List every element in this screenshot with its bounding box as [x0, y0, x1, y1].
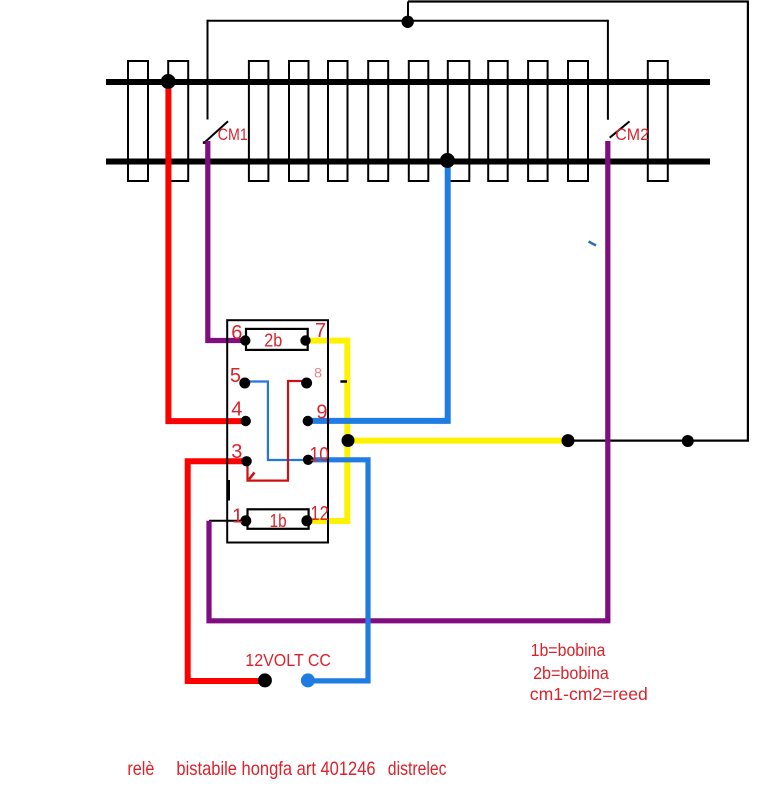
wire blue: pin 10 to supply + terminal: [308, 460, 368, 681]
terminal: supply minus (blue): [301, 673, 315, 687]
pin 7: [300, 335, 310, 345]
node: yellow/black junction: [562, 434, 575, 447]
svg-text:3: 3: [231, 441, 242, 463]
svg-text:CM1: CM1: [218, 125, 248, 144]
wire yellow: node to black loop node: [347, 438, 568, 444]
svg-text:12VOLT CC: 12VOLT CC: [245, 650, 331, 670]
reed switch CM1 blade: [205, 121, 229, 142]
node: top loop junction: [402, 16, 414, 28]
coil 1b box: [248, 509, 309, 529]
svg-text:10: 10: [310, 444, 330, 466]
wire black: CM2 top lead: [607, 20, 609, 120]
svg-text:1: 1: [232, 506, 243, 528]
svg-text:6: 6: [231, 322, 242, 344]
node: yellow junction near relay: [342, 434, 355, 447]
wire black: riser from bus to outer loop: [407, 2, 409, 22]
wire black: outer loop bottom to yellow node: [568, 440, 749, 442]
stray cyan scribble: [589, 242, 597, 246]
pin 8: [301, 378, 312, 389]
arrowhead tick at pin 3: [249, 473, 255, 480]
pin 9: [303, 416, 313, 426]
node: black loop junction: [682, 435, 694, 447]
pin 3: [241, 456, 251, 466]
relay border thick mark: [227, 480, 230, 501]
svg-text:distrelec: distrelec: [388, 758, 447, 780]
pin 1: [240, 515, 251, 526]
wire yellow: pin 7 to node then down to pin 12: [306, 341, 348, 521]
svg-text:1b: 1b: [270, 510, 287, 531]
pin 12: [301, 515, 312, 526]
svg-text:bistabile hongfa art 401246: bistabile hongfa art 401246: [176, 758, 375, 780]
svg-text:8: 8: [314, 365, 322, 380]
pin 10: [303, 455, 313, 465]
relay body outline: [227, 320, 328, 542]
internal wire blue thin: pin 5 to pin 10: [245, 382, 308, 461]
internal wire red thin: pin 8 to pin 3 arrow: [248, 381, 307, 481]
svg-text:relè: relè: [127, 758, 154, 780]
wire black: outer loop right side: [747, 2, 749, 441]
minus mark right of pin 8: [340, 380, 347, 383]
svg-text:CM2: CM2: [615, 125, 649, 144]
pin 6: [240, 335, 250, 345]
svg-text:cm1-cm2=reed: cm1-cm2=reed: [530, 684, 648, 704]
svg-text:4: 4: [231, 398, 242, 420]
reed switch CM2 blade: [610, 121, 630, 137]
pin 4: [241, 416, 251, 426]
wire purple: pin 1 loop to CM2 bottom lead: [209, 141, 608, 621]
rail bottom: [106, 159, 710, 165]
rail top: [106, 79, 710, 85]
svg-text:9: 9: [316, 401, 327, 423]
svg-text:5: 5: [230, 365, 241, 387]
wire black: outer loop top: [408, 0, 749, 2]
track ties: [128, 61, 668, 181]
svg-text:2b=bobina: 2b=bobina: [533, 663, 609, 683]
node: bottom rail junction: [440, 153, 455, 168]
wire black: CM1 top lead: [207, 20, 209, 120]
svg-text:2b: 2b: [264, 329, 282, 350]
coil 2b box: [246, 329, 308, 350]
wire blue: bottom rail junction down to pin 9: [308, 161, 448, 421]
pin 5: [239, 378, 250, 389]
svg-text:7: 7: [315, 320, 326, 342]
wire purple: CM1 bottom lead down to pin 6: [208, 141, 246, 341]
svg-text:12: 12: [310, 503, 329, 525]
svg-text:1b=bobina: 1b=bobina: [531, 640, 606, 660]
wire black: pin 1 stub: [209, 520, 246, 522]
wire black: inner top bus y=20.7 between CM1 and CM2: [208, 20, 608, 22]
wire red: top rail junction down to pin 4: [168, 82, 245, 421]
wire red: pin 3 feed down-left to supply + terminal: [188, 461, 265, 681]
node: top rail junction: [161, 74, 176, 89]
reed switch CM1 blade foot: [203, 141, 210, 144]
terminal: supply plus (black): [258, 673, 272, 687]
